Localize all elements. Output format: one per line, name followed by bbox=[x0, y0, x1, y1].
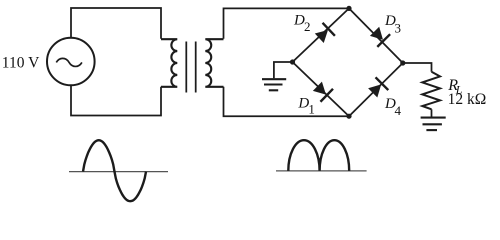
svg-text:2: 2 bbox=[304, 19, 311, 34]
svg-text:3: 3 bbox=[395, 20, 402, 35]
svg-text:1: 1 bbox=[308, 102, 315, 117]
svg-text:4: 4 bbox=[395, 103, 402, 118]
svg-text:110 V: 110 V bbox=[2, 55, 40, 72]
svg-text:12 kΩ: 12 kΩ bbox=[448, 91, 487, 108]
